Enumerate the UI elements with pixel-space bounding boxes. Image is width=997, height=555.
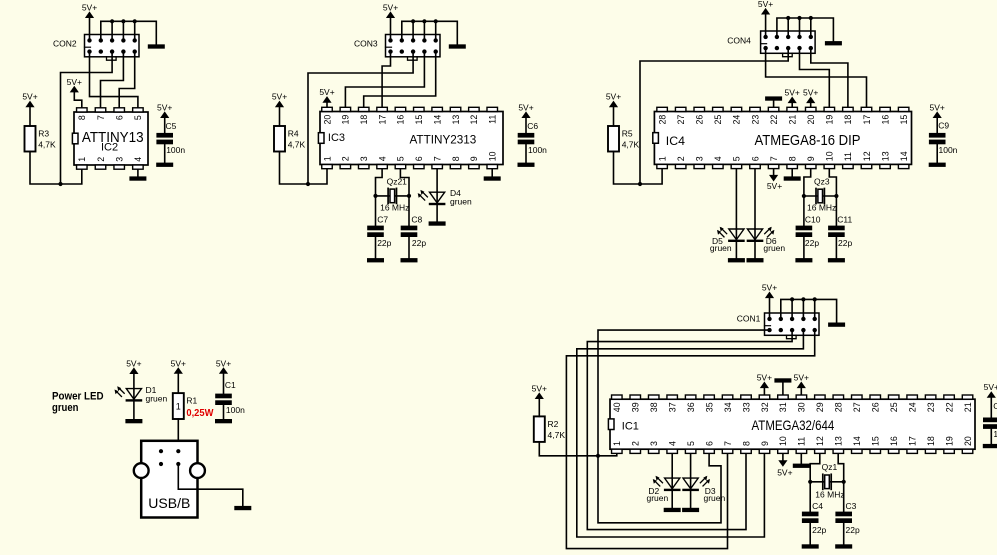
svg-text:5V+: 5V+	[383, 2, 398, 12]
wire IC1 pin12 to crystal	[810, 454, 820, 482]
wire IC3 pin4 to crystal	[376, 169, 383, 196]
svg-text:36: 36	[686, 402, 696, 412]
value 0,25W	[186, 408, 214, 419]
wire CON2-3 to node A	[61, 52, 113, 184]
svg-text:4: 4	[377, 156, 387, 161]
label D2	[647, 486, 669, 503]
wire crystal Qz1 net	[810, 481, 844, 483]
svg-text:IC3: IC3	[328, 132, 345, 144]
svg-text:gruen: gruen	[704, 493, 726, 503]
label 16 MHz Qz3	[807, 203, 836, 213]
svg-text:9: 9	[760, 441, 770, 446]
svg-text:16 MHz: 16 MHz	[380, 202, 409, 212]
svg-text:4: 4	[713, 156, 723, 161]
wire IC1 pin13 to crystal	[838, 454, 844, 482]
svg-text:C4: C4	[812, 501, 823, 511]
supply 5V+ IC1 pin30	[794, 372, 809, 394]
svg-text:Qz21: Qz21	[387, 176, 408, 186]
label Power LED	[52, 391, 104, 414]
supply 5V+ R5	[606, 91, 621, 126]
ground CON2	[148, 44, 165, 48]
wire crystal Qz3 net	[804, 195, 837, 197]
svg-text:26: 26	[871, 402, 881, 412]
ground IC3 pin10	[484, 169, 501, 180]
label IC2	[101, 142, 118, 154]
pin numbers IC3 top row	[322, 115, 497, 125]
svg-text:5V+: 5V+	[777, 468, 792, 478]
svg-text:35: 35	[704, 402, 714, 412]
svg-text:7: 7	[723, 441, 733, 446]
svg-text:5V+: 5V+	[984, 382, 997, 392]
wire IC4 pin6 to D6	[754, 169, 756, 229]
junction node B	[306, 182, 310, 186]
svg-text:C8: C8	[411, 214, 422, 224]
wire node to C7	[375, 196, 377, 226]
svg-text:100n: 100n	[939, 145, 958, 155]
IC body IC1	[608, 395, 975, 453]
wire IC1 pin4 to D2	[671, 454, 673, 478]
supply 5V+ CON3	[383, 2, 398, 40]
svg-text:28: 28	[657, 115, 667, 125]
svg-text:18: 18	[926, 436, 936, 446]
label CON4	[727, 36, 751, 46]
ground D6	[747, 258, 764, 262]
svg-text:14: 14	[432, 115, 442, 125]
junction dots CON4 rail	[786, 16, 813, 20]
supply 5V+ R2	[532, 383, 547, 416]
svg-text:20: 20	[963, 436, 973, 446]
svg-text:19: 19	[825, 115, 835, 125]
supply 5V+ R4	[272, 91, 287, 126]
label D6	[763, 236, 785, 253]
supply 5V+ IC3 pin20	[319, 87, 334, 107]
junction node E	[596, 454, 600, 458]
svg-text:20: 20	[322, 115, 332, 125]
ground C8	[401, 258, 418, 262]
ground C2	[983, 444, 997, 448]
resistor R5	[608, 126, 619, 152]
svg-text:18: 18	[843, 115, 853, 125]
svg-text:Qz3: Qz3	[814, 176, 830, 186]
svg-text:17: 17	[377, 115, 387, 125]
wire R5 to IC4 pin1	[614, 152, 663, 185]
svg-text:12: 12	[469, 115, 479, 125]
wire C9 to ground	[936, 144, 938, 162]
label D4	[450, 188, 472, 206]
svg-text:5V+: 5V+	[762, 282, 777, 292]
svg-text:22p: 22p	[838, 238, 852, 248]
svg-text:8: 8	[741, 441, 751, 446]
wire C1 to ground	[223, 405, 225, 419]
ground C9	[929, 163, 946, 167]
supply 5V+ CON2	[82, 2, 97, 40]
svg-text:22: 22	[769, 115, 779, 125]
label IC4	[666, 134, 685, 148]
svg-text:4,7K: 4,7K	[38, 140, 56, 150]
supply 5V+ CON1	[762, 282, 777, 319]
svg-text:6: 6	[704, 441, 714, 446]
capacitor C11	[828, 226, 845, 237]
svg-text:16 MHz: 16 MHz	[807, 203, 836, 213]
svg-text:1: 1	[77, 157, 87, 162]
wire CON2-1 to IC2 pin5	[90, 52, 138, 108]
label R3	[38, 129, 56, 150]
wire C7 to ground	[375, 237, 377, 258]
wire IC3 pin7 to D4	[436, 169, 438, 192]
label R1	[186, 396, 197, 406]
svg-text:23: 23	[926, 402, 936, 412]
svg-text:100n: 100n	[226, 405, 245, 415]
svg-text:gruen: gruen	[710, 243, 732, 253]
supply 5V+ IC4 pin21	[785, 87, 800, 106]
svg-text:1: 1	[176, 401, 181, 411]
wire CON1-1 to node E	[598, 330, 770, 456]
wire CON1-5 to IC1 pin7	[566, 330, 814, 548]
label D3	[704, 486, 726, 503]
svg-text:7: 7	[432, 156, 442, 161]
svg-text:33: 33	[741, 402, 751, 412]
svg-text:9: 9	[469, 156, 479, 161]
ground C10	[795, 258, 812, 262]
svg-text:3: 3	[115, 157, 125, 162]
svg-text:5V+: 5V+	[532, 383, 547, 393]
svg-text:5V+: 5V+	[518, 102, 533, 112]
svg-text:gruen: gruen	[647, 493, 669, 503]
svg-text:4,7K: 4,7K	[288, 140, 306, 150]
svg-text:16 MHz: 16 MHz	[815, 489, 844, 499]
ground D5	[728, 258, 745, 262]
svg-text:CON1: CON1	[737, 314, 761, 324]
svg-text:6: 6	[750, 156, 760, 161]
svg-text:25: 25	[889, 402, 899, 412]
svg-text:25: 25	[713, 115, 723, 125]
svg-text:28: 28	[834, 402, 844, 412]
label R5	[622, 129, 640, 150]
wire CON3-4 to IC3 pin19	[345, 52, 424, 107]
svg-text:14: 14	[852, 436, 862, 446]
label C11	[837, 214, 852, 248]
label R4	[288, 129, 306, 150]
svg-text:13: 13	[834, 436, 844, 446]
wire R3 to IC2 pin1	[30, 152, 82, 185]
svg-text:gruen: gruen	[52, 402, 79, 414]
label CON3	[354, 39, 378, 49]
svg-text:3: 3	[649, 441, 659, 446]
capacitor C9	[929, 133, 946, 144]
supply 5V+ C1	[216, 358, 231, 393]
connector USB/B	[134, 441, 205, 518]
wire D5 to ground	[735, 241, 737, 258]
pin numbers IC4 bottom row	[657, 151, 909, 161]
svg-text:1: 1	[322, 156, 332, 161]
crystal Qz1	[823, 474, 831, 489]
svg-text:32: 32	[760, 402, 770, 412]
svg-text:6: 6	[115, 115, 125, 120]
label Qz2	[387, 176, 408, 186]
IC body IC3	[318, 107, 503, 168]
supply 5V+ C6	[518, 102, 533, 133]
svg-text:2: 2	[631, 441, 641, 446]
svg-text:8: 8	[451, 156, 461, 161]
svg-text:5V+: 5V+	[930, 102, 945, 112]
junction dots CON2 rail	[110, 19, 137, 23]
capacitor C6	[518, 133, 535, 144]
wire IC3 pin5 to crystal	[400, 169, 409, 196]
supply 5V+ CON4	[758, 0, 773, 37]
svg-text:C10: C10	[805, 214, 821, 224]
svg-text:19: 19	[341, 115, 351, 125]
label ATMEGA8-16 DIP	[755, 133, 861, 149]
wire CON1-4 to IC1 pin9	[577, 330, 804, 537]
ground C4	[802, 544, 819, 548]
svg-text:40: 40	[612, 402, 622, 412]
ground D1	[125, 419, 142, 423]
ground IC1 pin11	[793, 454, 810, 468]
svg-text:5: 5	[396, 156, 406, 161]
pin numbers IC1 bottom row	[612, 436, 973, 446]
svg-text:5V+: 5V+	[272, 91, 287, 101]
svg-text:R4: R4	[288, 129, 299, 139]
svg-text:ATMEGA8-16 DIP: ATMEGA8-16 DIP	[755, 133, 861, 149]
svg-text:7: 7	[96, 115, 106, 120]
pin numbers IC2 top row	[77, 115, 143, 120]
pin numbers IC4 top row	[657, 115, 909, 125]
svg-text:C6: C6	[527, 121, 538, 131]
svg-text:Power LED: Power LED	[52, 391, 104, 403]
svg-text:C11: C11	[837, 214, 852, 224]
svg-text:8: 8	[77, 115, 87, 120]
label IC3	[328, 132, 345, 144]
capacitor C2	[983, 418, 997, 429]
wire crystal Qz2 net	[376, 195, 410, 197]
label C2	[993, 401, 997, 439]
capacitor C10	[796, 226, 813, 237]
svg-text:22p: 22p	[805, 238, 819, 248]
svg-text:16: 16	[880, 115, 890, 125]
supply 5V+ IC2 pin8	[67, 77, 82, 107]
svg-text:C5: C5	[166, 121, 177, 131]
label C1	[225, 380, 245, 415]
svg-text:3: 3	[695, 156, 705, 161]
svg-text:24: 24	[732, 115, 742, 125]
wire R4 to IC3 pin1	[280, 152, 328, 185]
wire D4 to ground	[436, 204, 438, 222]
LED D6	[747, 227, 775, 242]
wire CON3-5 to IC3 pin18	[364, 52, 436, 107]
crystal Qz2	[388, 188, 396, 203]
svg-text:22p: 22p	[812, 525, 826, 535]
wire CON1-3 to IC1 pin8	[587, 330, 792, 529]
svg-text:2: 2	[676, 156, 686, 161]
svg-text:gruen: gruen	[146, 394, 168, 404]
supply 5V+ IC1 pin32	[757, 372, 772, 394]
connector CON2	[85, 35, 140, 61]
svg-text:5V+: 5V+	[126, 358, 141, 368]
label D1	[146, 385, 168, 404]
ground CON3	[449, 44, 466, 48]
svg-text:4: 4	[667, 441, 677, 446]
svg-text:9: 9	[806, 156, 816, 161]
svg-text:17: 17	[862, 115, 872, 125]
svg-text:100n: 100n	[166, 145, 185, 155]
svg-text:11: 11	[843, 152, 853, 161]
wire CON3-1 to IC3 pin17	[382, 52, 390, 107]
svg-text:5V+: 5V+	[319, 87, 334, 97]
ground IC2 pin4	[129, 170, 146, 181]
svg-text:20: 20	[806, 115, 816, 125]
svg-text:18: 18	[359, 115, 369, 125]
wire D1 to ground	[133, 400, 135, 419]
svg-text:8: 8	[787, 156, 797, 161]
svg-text:CON3: CON3	[354, 39, 378, 49]
svg-text:5V+: 5V+	[803, 87, 818, 97]
svg-text:100n: 100n	[993, 429, 997, 439]
ground C7	[367, 258, 384, 262]
svg-text:IC2: IC2	[101, 142, 118, 154]
ground C3	[835, 544, 852, 548]
wire C6 to ground	[525, 144, 527, 162]
svg-text:USB/B: USB/B	[148, 495, 190, 511]
LED D5	[717, 227, 745, 242]
wire IC1 pin5 to D3	[690, 454, 692, 478]
wire CON4-1 to IC4 pin17	[766, 48, 867, 107]
label C4	[812, 501, 826, 535]
connector CON4	[761, 31, 816, 57]
svg-text:29: 29	[815, 402, 825, 412]
crystal Qz3	[816, 189, 824, 204]
svg-text:C3: C3	[846, 501, 857, 511]
supply 5V+ IC1 pin10 (down)	[777, 454, 792, 478]
svg-text:5V+: 5V+	[767, 181, 782, 191]
resistor R2	[534, 416, 545, 442]
supply 5V+ R3	[22, 91, 37, 126]
svg-text:2: 2	[96, 157, 106, 162]
svg-text:22p: 22p	[377, 238, 391, 248]
label R2	[548, 419, 566, 440]
ground IC4 pin8	[784, 169, 801, 180]
svg-text:27: 27	[676, 115, 686, 125]
wire node to C8	[408, 196, 410, 226]
wire C2 to ground	[990, 429, 992, 444]
svg-text:5: 5	[732, 156, 742, 161]
label C6	[527, 121, 547, 155]
svg-text:Qz1: Qz1	[822, 462, 838, 472]
wire node to C10	[803, 196, 805, 226]
wire IC4 pin9 to crystal	[804, 169, 811, 196]
resistor R4	[274, 126, 285, 152]
svg-text:CON4: CON4	[727, 36, 751, 46]
wire CON3-3 to node B	[308, 52, 413, 184]
svg-text:27: 27	[852, 402, 862, 412]
wire CON2-5 to IC2 pin6	[119, 52, 135, 108]
pin numbers IC3 bottom row	[322, 151, 497, 161]
svg-text:16: 16	[396, 115, 406, 125]
LED D2	[653, 476, 681, 491]
svg-text:5V+: 5V+	[67, 77, 82, 87]
svg-text:12: 12	[862, 151, 872, 161]
capacitor C8	[401, 226, 418, 237]
svg-text:R5: R5	[622, 129, 633, 139]
capacitor C3	[835, 512, 852, 523]
wire C4 to ground	[809, 523, 811, 544]
svg-text:19: 19	[944, 436, 954, 446]
connector CON3	[386, 35, 441, 61]
svg-text:R3: R3	[38, 129, 49, 139]
svg-text:5V+: 5V+	[757, 372, 772, 382]
svg-text:C1: C1	[225, 380, 236, 390]
svg-text:5: 5	[686, 441, 696, 446]
label ATMEGA32/644	[752, 418, 835, 433]
svg-text:R2: R2	[548, 419, 559, 429]
ground USB	[234, 506, 251, 510]
pin numbers IC2 bottom row	[77, 157, 143, 162]
IC body IC4	[653, 107, 912, 168]
svg-text:C7: C7	[377, 214, 388, 224]
wire CON4-5 to IC4 pin18	[811, 48, 848, 107]
label Qz3	[814, 176, 830, 186]
resistor R1	[173, 393, 184, 419]
ground C1	[215, 419, 232, 423]
svg-text:5V+: 5V+	[785, 87, 800, 97]
label C5	[166, 121, 186, 155]
label C7	[377, 214, 391, 248]
wire C10 to ground	[803, 237, 805, 258]
svg-text:22p: 22p	[846, 525, 860, 535]
svg-text:15: 15	[871, 436, 881, 446]
svg-text:17: 17	[907, 436, 917, 446]
capacitor C1	[215, 394, 232, 405]
connector CON1	[765, 313, 820, 339]
capacitor C7	[367, 226, 384, 237]
svg-text:100n: 100n	[528, 145, 547, 155]
wire USB to ground	[178, 464, 243, 506]
ground CON4	[825, 41, 842, 45]
svg-text:R1: R1	[186, 396, 197, 406]
svg-text:22: 22	[944, 402, 954, 412]
label D5	[710, 236, 732, 253]
svg-text:ATTINY2313: ATTINY2313	[410, 133, 477, 146]
svg-text:5V+: 5V+	[794, 372, 809, 382]
svg-text:6: 6	[414, 156, 424, 161]
svg-text:21: 21	[963, 402, 973, 412]
wire R2 to IC1 pin1	[539, 442, 617, 456]
junction node A	[58, 182, 62, 186]
svg-text:C9: C9	[938, 121, 949, 131]
label C10	[805, 214, 821, 248]
label ATTINY13	[82, 130, 144, 146]
IC body IC2	[72, 108, 148, 169]
label ATTINY2313	[410, 133, 477, 146]
LED D3	[682, 476, 710, 491]
svg-text:15: 15	[414, 115, 424, 125]
svg-text:10: 10	[488, 151, 498, 161]
svg-text:4,7K: 4,7K	[548, 430, 566, 440]
svg-text:1: 1	[612, 441, 622, 446]
svg-text:gruen: gruen	[450, 196, 472, 206]
svg-text:5V+: 5V+	[216, 358, 231, 368]
svg-text:0,25W: 0,25W	[186, 408, 214, 419]
svg-text:14: 14	[899, 151, 909, 161]
supply 5V+ C2	[984, 382, 997, 418]
resistor R3	[25, 126, 36, 152]
svg-text:22p: 22p	[412, 238, 426, 248]
label IC1	[622, 420, 639, 432]
label 16 MHz Qz2	[380, 202, 409, 212]
svg-text:16: 16	[889, 436, 899, 446]
capacitor C5	[156, 133, 173, 144]
wire C3 to ground	[843, 523, 845, 544]
label C8	[411, 214, 426, 248]
